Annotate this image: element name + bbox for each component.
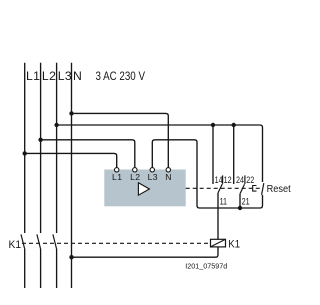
wire coil A2 to N [72,247,219,257]
svg-text:24: 24 [236,174,244,185]
label Reset [267,184,291,196]
node coil return to N [69,255,73,259]
pin label 11 [220,195,228,206]
pin label 24 [236,174,244,185]
pin label 14 [215,174,223,185]
pin label 12 [224,174,232,185]
svg-text:I201_07597d: I201_07597d [185,261,227,270]
wire bridge L3 terminal to feedback line [152,140,262,208]
svg-text:14: 14 [215,174,223,185]
contact K1.2 terminal 24 wire [233,125,235,184]
contact K1.2 blade [240,184,245,194]
svg-text:N: N [73,69,82,83]
main contact K1 pole L1 blade [21,234,25,249]
contact K1.1 blade [218,184,222,193]
box pin label L2 [130,172,140,182]
svg-text:L1: L1 [26,69,40,83]
terminal circle L1 [115,168,119,172]
node N junction [69,111,73,115]
svg-text:12: 12 [224,174,232,185]
node 21 junction [238,206,242,210]
terminal circle L3 [150,168,154,172]
label N [73,69,82,83]
svg-text:22: 22 [246,174,254,185]
wire L1 to box L1 terminal [25,153,117,167]
dashed mechanical link contacts to coil [22,242,210,244]
wire L2 bus vertical (top) [40,63,42,233]
main contact K1 pole L3 blade [53,234,57,249]
box pin label L3 [148,172,158,182]
label 3 AC 230 V [96,70,146,83]
reset pushbutton blade [262,183,264,195]
node contact 14 junction [211,123,215,127]
box pin label N [165,172,172,182]
node L2 junction [38,138,42,142]
contact K1.2 terminal 22 stub [244,175,246,184]
main contact K1 pole L2 lower wire [40,249,42,288]
svg-text:N: N [165,172,172,182]
node contact 24 junction [232,123,236,127]
svg-text:21: 21 [242,195,250,206]
label L2 [42,69,56,83]
box pin label L1 [112,172,122,182]
amplifier triangle symbol [138,183,149,195]
svg-text:L2: L2 [42,69,56,83]
label K1 (coil) [228,239,240,251]
svg-text:3 AC 230 V: 3 AC 230 V [96,70,146,83]
wire L1 bus vertical (top) [24,63,26,233]
label L3 [58,69,72,83]
svg-text:L3: L3 [58,69,72,83]
svg-text:Reset: Reset [267,184,291,196]
device box U1 (safety relay) [104,170,185,207]
contact K1.1 terminal 12 stub [222,175,224,183]
svg-text:11: 11 [220,195,228,206]
svg-text:L1: L1 [112,172,122,182]
wire L3 feed to contacts and reset [57,125,263,182]
main contact K1 pole L1 lower wire [24,249,26,288]
coil diagonal [211,239,226,247]
dashed mechanical link to reset [186,187,260,189]
main contact K1 pole L3 lower wire [56,249,58,288]
wire N to box N terminal [72,113,169,167]
pin label 22 [246,174,254,185]
contact K1.1 common 11 wire to coil [217,193,219,239]
label L1 [26,69,40,83]
wire L3 bus vertical (top) [56,63,58,233]
svg-text:K1: K1 [9,239,22,251]
contact K1.2 common 21 wire [239,194,241,208]
node L1 junction [23,151,27,155]
terminal circle N [166,168,170,172]
pin label 21 [242,195,250,206]
wire N bus vertical [71,63,73,288]
terminal circle L2 [133,168,137,172]
main contact K1 pole L2 blade [37,234,41,249]
contact K1.1 terminal 14 wire [212,125,214,184]
svg-text:L3: L3 [148,172,158,182]
svg-text:K1: K1 [228,239,240,251]
svg-text:L2: L2 [130,172,140,182]
node L3 junction [54,123,58,127]
figure id text [185,261,227,270]
wire L2 to box L2 terminal [41,140,135,168]
reset manual actuator symbol [253,186,257,192]
label K1 (main contacts) [9,239,22,251]
relay coil K1 [211,239,226,247]
